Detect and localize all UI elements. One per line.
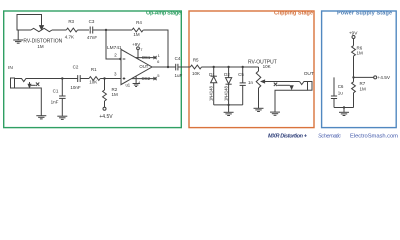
svg-text:C4: C4 [175, 56, 181, 61]
svg-text:R5: R5 [193, 58, 199, 63]
svg-text:OUT: OUT [139, 64, 148, 69]
svg-text:1u: 1u [338, 90, 344, 95]
svg-text:1N4148: 1N4148 [224, 85, 229, 101]
svg-text:Op-Amp Stage: Op-Amp Stage [146, 11, 181, 17]
svg-text:R6: R6 [357, 45, 363, 50]
svg-text:OS2: OS2 [141, 76, 150, 81]
svg-text:1uF: 1uF [175, 73, 183, 78]
svg-text:5: 5 [157, 73, 160, 78]
svg-text:10K: 10K [192, 71, 200, 76]
svg-text:C1: C1 [53, 89, 59, 94]
svg-text:LM741: LM741 [107, 45, 122, 51]
svg-text:Clipping Stage: Clipping Stage [274, 11, 313, 17]
svg-text:47nF: 47nF [87, 35, 98, 40]
svg-text:OS1: OS1 [142, 55, 151, 60]
svg-text:u1: u1 [125, 82, 130, 87]
svg-text:+4.5V: +4.5V [99, 114, 113, 120]
svg-text:D2: D2 [224, 72, 230, 77]
svg-text:6: 6 [157, 59, 160, 64]
svg-text:+9V: +9V [349, 31, 358, 37]
svg-text:C3: C3 [89, 19, 95, 24]
svg-text:1M: 1M [37, 44, 44, 49]
svg-text:1M: 1M [112, 92, 119, 97]
svg-text:1M: 1M [357, 51, 364, 56]
svg-text:1M: 1M [133, 32, 140, 37]
svg-text:OUT: OUT [304, 71, 314, 77]
svg-text:+4.5V: +4.5V [377, 75, 390, 81]
svg-text:10K: 10K [89, 79, 97, 84]
svg-text:3: 3 [114, 72, 117, 77]
svg-text:10K: 10K [263, 64, 271, 69]
svg-text:1N4148: 1N4148 [209, 85, 214, 101]
svg-text:10nF: 10nF [70, 85, 81, 90]
svg-text:C5: C5 [238, 72, 244, 77]
svg-text:7: 7 [140, 47, 143, 52]
svg-text:R4: R4 [136, 20, 142, 25]
svg-text:1nF: 1nF [51, 100, 59, 105]
svg-text:R1: R1 [91, 67, 97, 72]
svg-text:4.7K: 4.7K [65, 35, 74, 40]
svg-text:C2: C2 [73, 65, 79, 70]
svg-text:1: 1 [158, 53, 161, 58]
svg-text:1n: 1n [248, 80, 254, 85]
svg-text:+9V: +9V [132, 42, 140, 47]
svg-text:C6: C6 [338, 84, 344, 89]
svg-text:Power Supply Stage: Power Supply Stage [337, 11, 392, 17]
svg-text:IN: IN [8, 65, 13, 71]
svg-text:2: 2 [114, 53, 117, 58]
svg-text:Schematic: Schematic [318, 134, 341, 140]
svg-text:ElectroSmash.com: ElectroSmash.com [350, 134, 398, 140]
svg-text:1M: 1M [360, 87, 367, 92]
svg-text:MXR Distortion +: MXR Distortion + [268, 134, 308, 140]
svg-text:R7: R7 [360, 81, 366, 86]
svg-text:D1: D1 [209, 72, 215, 77]
svg-text:R3: R3 [68, 19, 74, 24]
